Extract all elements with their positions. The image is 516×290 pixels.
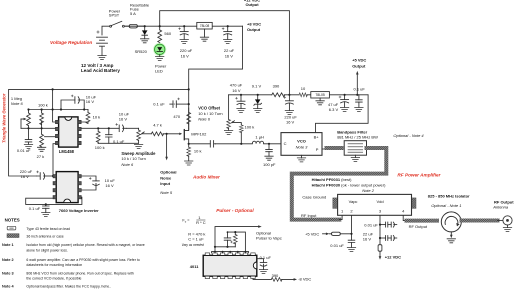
antenna connector J1 [498,216,513,228]
svg-text:Vapc: Vapc [349,199,358,204]
junction dots PA [350,224,381,240]
coax: PA to isolator [407,219,438,223]
capacitor C7 0.1uF bypass on +8 drop [170,98,189,108]
inductor L1 1uH [252,141,263,143]
svg-text:Vary as needed: Vary as needed [182,243,204,247]
ground under 220uF [180,39,188,43]
regulator U4 78L05 [311,92,330,101]
svg-text:Lead Acid Battery: Lead Acid Battery [81,68,120,73]
LED D2 Power (green) [153,43,166,57]
svg-text:16 V: 16 V [181,53,190,58]
wire: +12 VDC entry arrow [379,251,381,256]
coax: shield path from BPF around enclosure to PA input [292,148,387,220]
ground under SR520 [141,39,149,43]
resistor R10 10k source [187,144,191,161]
capacitor C1 220uF 16V [179,26,189,39]
svg-text:16 V: 16 V [86,99,95,104]
svg-text:Optional - Note 1: Optional - Note 1 [431,203,461,208]
wire: -8 output loop around 7660 [26,197,82,204]
ground under 22uF [224,39,232,43]
resistor R15 470k timing [233,232,237,247]
svg-text:100 k: 100 k [95,145,105,150]
svg-text:alone for slight power loss.: alone for slight power loss. [26,248,67,252]
resistor R8 4.7k [151,132,163,136]
svg-text:0.1 uF: 0.1 uF [153,102,165,107]
capacitor C13 470uF 16V [236,95,246,109]
svg-text:+5 VDC: +5 VDC [305,231,319,236]
op-amp U1 LM1458 DIP-8 [55,117,81,147]
svg-text:SPST: SPST [109,13,120,18]
wire: node A top bias rail above LM1458 [29,109,89,111]
ground under source resistor [185,161,193,165]
svg-text:16 V: 16 V [119,116,128,121]
svg-text:Note 3: Note 3 [2,271,14,275]
svg-text:6.3 V: 6.3 V [329,107,339,112]
svg-text:78L08: 78L08 [200,24,210,28]
svg-text:Note 6: Note 6 [11,101,24,106]
transistor Q1 MPF102 JFET [179,129,188,144]
svg-text:Type 43 ferrite bead on lead: Type 43 ferrite bead on lead [26,227,70,231]
svg-text:Optional: Optional [160,170,176,175]
capacitor C14 220uF 16V [284,95,294,111]
wire: gate node with noise input junction [163,133,181,135]
svg-text:Optional bandpass filter. Mak: Optional bandpass filter. Makes the FCC … [26,284,111,288]
svg-text:881 MHz / 25 MHz BW: 881 MHz / 25 MHz BW [337,134,378,139]
wire: coax center to pin 1 [339,215,342,219]
ground under zener [254,109,262,113]
wire: pin 4 RF out [403,215,406,220]
svg-text:390: 390 [273,83,280,88]
svg-text:0.1 uF: 0.1 uF [354,87,366,92]
svg-text:10 k: 10 k [93,115,101,120]
legend: ferrite bead symbol [7,226,16,230]
wire: pin 2 Vapc down [351,215,353,233]
svg-text:Pulser to Vapc: Pulser to Vapc [256,236,282,241]
svg-text:Voltage Regulation: Voltage Regulation [50,40,92,45]
svg-text:Pulser - Optional: Pulser - Optional [216,208,254,213]
resistor R3 100k [40,110,44,129]
svg-text:the correct VCO module, if pos: the correct VCO module, if possible [26,277,81,281]
svg-text:220 uF: 220 uF [20,169,33,174]
junction dots triangle generator [27,88,189,177]
svg-text:RF Output: RF Output [409,224,428,229]
svg-text:Note 2: Note 2 [2,258,14,262]
ground under antenna connector [503,228,511,232]
capacitor C3 0.01uF [25,128,32,144]
resistor R1 560 [158,26,162,44]
capacitor C20 1uF timing [224,232,232,247]
wire: pot bottom / divider node to pin 2 [21,127,56,129]
gate IC U8 4011 DIP-14 [203,253,257,279]
svg-text:100 k: 100 k [245,125,255,130]
ground under 100pF [265,156,273,160]
svg-text:Vdd: Vdd [377,199,384,204]
svg-text:Note 5: Note 5 [160,190,173,195]
potentiometer R11 VCO Offset 10k 10 turn [227,95,242,131]
capacitor C9 10uF 16V pump [81,176,99,190]
diode D1 SR520 [142,26,148,39]
svg-text:datasheets for mounting inform: datasheets for mounting information [26,263,82,267]
svg-text:16 V: 16 V [363,236,372,241]
ground under C17 [347,247,355,251]
ground under C21 [259,270,267,274]
resistor R12 100k [239,125,243,144]
wire: +12 VDC tap going up and right then down to 390/220uF junction [160,11,290,95]
svg-text:100 pF: 100 pF [263,162,276,167]
battery B1 12V lead acid [97,31,108,56]
resistor R14 10 [299,93,307,97]
svg-text:825 - 850 MHz Isolator: 825 - 850 MHz Isolator [428,193,470,198]
capacitor C6 10uF 16V coupling [116,123,127,131]
svg-text:100 k: 100 k [38,102,48,107]
svg-text:0.1 uF: 0.1 uF [113,139,125,144]
wire: VCO P output stub [322,148,327,150]
svg-text:Isolator from old (high power): Isolator from old (high power) cellular … [26,243,144,247]
svg-text:0.01 uF: 0.01 uF [364,222,378,227]
svg-text:36 inch antenna or case: 36 inch antenna or case [26,234,63,238]
svg-text:10 k / 10 Turn: 10 k / 10 Turn [121,156,145,161]
svg-text:560: 560 [164,31,171,36]
svg-text:10: 10 [301,86,306,91]
wire: 9V zener reference rail [229,94,369,96]
svg-text:10 k / 10 Turn: 10 k / 10 Turn [198,111,222,116]
svg-text:0.01 uF: 0.01 uF [17,148,31,153]
svg-text:+5 VDC: +5 VDC [352,58,366,63]
svg-text:NOTES: NOTES [5,218,20,223]
coax: isolator to antenna jack [462,219,498,223]
svg-text:78L05: 78L05 [315,93,325,97]
wire: optional noise input drop with arrow [166,134,168,157]
capacitor C2 22uF 16V [222,26,232,39]
capacitor C5 0.1uF [106,128,113,143]
ground under bandpass filter [351,158,359,162]
resistor R16 390 [271,278,282,282]
wire: audio output node to VCO [189,143,281,145]
resistor R6 100k to gnd [96,128,100,143]
svg-text:Note 6: Note 6 [121,162,134,167]
wire: RC timing loop [215,232,245,252]
capacitor C21 0.1uF 4011 bypass [257,259,267,270]
svg-text:VCO: VCO [297,139,306,144]
ground under 470uF [237,109,245,113]
svg-text:4.7 k: 4.7 k [153,123,162,128]
junction dots on 5V rail [240,94,359,145]
svg-text:C = 1 uF: C = 1 uF [188,236,204,241]
svg-text:4011: 4011 [190,264,199,269]
ground under 78L08 [200,37,208,41]
ground under 47uF [340,107,348,111]
svg-text:0.01 uF: 0.01 uF [330,243,344,248]
svg-text:RF Power Amplifier: RF Power Amplifier [397,173,441,178]
svg-text:B+: B+ [314,135,320,140]
regulator U2 78L08 [197,22,212,37]
charge-pump IC U3 7660 voltage inverter DIP-8 [53,172,81,203]
junction dots pulser [214,231,246,253]
ground under battery [98,56,106,60]
svg-text:Noise: Noise [160,175,172,180]
capacitor C16 0.1uF [356,95,363,108]
wire: vertical from +8 wire to node A and to pin1 [53,89,56,122]
junction dot -8 loop [45,203,47,205]
ground under 220uF C14 [285,111,293,115]
ground under 0.1uF [42,213,50,217]
wire: output node B from pin to sweep pot [81,127,138,129]
svg-text:5 A: 5 A [130,11,136,16]
svg-text:LED: LED [155,68,163,73]
svg-text:0.1 uF: 0.1 uF [260,255,272,260]
ground under sweep pot [134,144,142,148]
coax: VCO to bandpass filter [327,146,342,150]
ground under isolator [447,239,455,243]
ferrite bead FB2 [378,245,382,252]
wire: bottom node to pot ground [98,142,138,144]
potentiometer R7 Sweep Amplitude 10k 10 turn [137,128,152,143]
svg-text:1 µH: 1 µH [255,135,264,140]
svg-text:Input: Input [160,181,170,186]
ground under 0.01uF [24,144,32,148]
zener diode D3 9.1V [254,95,262,109]
svg-text:Output: Output [245,2,259,7]
svg-text:0.1 uF: 0.1 uF [29,206,41,211]
svg-text:Note 3: Note 3 [296,144,309,149]
svg-text:SR520: SR520 [135,49,148,54]
ferrite bead FB1 [332,232,341,235]
wire: +8 feed across top of generator and down left side to 7660 [9,89,189,176]
svg-text:Optional - Note 4: Optional - Note 4 [393,133,424,138]
capacitor C18 0.01uF feedthrough [380,222,397,227]
resistor R4 27k [40,128,44,147]
wire: +5 to VCO B+ [316,95,369,133]
resistor R5 10k feedback [81,110,90,124]
capacitor C15 47uF 6.3V [339,95,349,108]
svg-text:Output: Output [352,63,366,68]
svg-text:16 V: 16 V [232,88,241,93]
capacitor C17 0.01uF [348,234,355,248]
svg-text:Triangle Wave Generator: Triangle Wave Generator [2,93,7,143]
isolator U7 825-850MHz [441,212,461,238]
svg-text:10 k: 10 k [194,149,202,154]
wire: +5 VDC output arrow up [356,75,358,95]
svg-text:MPF102: MPF102 [191,132,207,137]
capacitor C4 10uF 16V integrator [61,95,84,110]
svg-text:+12 VDC: +12 VDC [385,254,401,259]
junction dots on main rail [144,25,229,27]
svg-text:6 watt power amplifier. Can u: 6 watt power amplifier. Can use a PF0030… [26,258,139,262]
svg-text:806 MHz VCO from old cellular: 806 MHz VCO from old cellular phone. Run… [26,271,133,275]
svg-text:16 V: 16 V [225,53,234,58]
potentiometer R2 1 Meg [21,110,30,129]
RF power amp module U6 PF0031 [333,194,416,215]
svg-text:P: P [316,147,319,152]
resistor R9 470 drain load [187,108,191,129]
wire: pin 4 down to -8 rail [53,144,56,176]
wire: pin 3 stub [45,136,56,138]
svg-text:Hitachi PF0031 (best): Hitachi PF0031 (best) [312,177,352,182]
svg-text:7660 Voltage Inverter: 7660 Voltage Inverter [59,208,99,213]
ground under 27k [37,147,45,151]
resistor R13 390 [272,93,285,97]
svg-text:16 V: 16 V [286,120,295,125]
svg-text:Hitachi PF0030 (ok - lower out: Hitachi PF0030 (ok - lower output power) [312,182,386,187]
svg-text:RF Input: RF Input [301,213,317,218]
VCO module U5 [281,133,322,158]
ground under C16 [355,107,363,111]
svg-text:Case Ground: Case Ground [302,194,326,199]
svg-text:Note 1: Note 1 [2,243,14,247]
capacitor C12 100pF [266,144,273,156]
ground under LED [156,57,164,61]
wire: pin 3 Vdd down [379,215,381,244]
svg-text:+8 VDC: +8 VDC [247,22,261,27]
svg-text:Note 2: Note 2 [362,188,375,193]
wire: +8VDC feed down and left to triangle generator rail [189,26,243,129]
svg-text:16 V: 16 V [105,183,114,188]
ground under VCO offset pot [224,130,232,134]
svg-text:470: 470 [173,114,180,119]
svg-text:VCO Offset: VCO Offset [198,105,220,110]
wire: +5 feed with arrow [323,233,326,235]
ground under VCO [297,158,305,162]
wire: main +12 rail from battery to +8VDC corner [102,26,243,35]
wire: top pin bus [212,252,249,253]
svg-text:9.1 V: 9.1 V [252,83,262,88]
capacitor C8 220uF 16V on -8 rail [37,171,56,179]
svg-text:Output: Output [247,27,261,32]
svg-text:R * C: R * C [196,220,206,225]
capacitor C19 22uF 16V feedthrough [380,236,397,241]
capacitor C11 0.1uF coupling [210,141,215,148]
wire: pulser output to Vapc arrow [215,227,258,252]
svg-text:Antenna: Antenna [492,205,509,210]
fuse F1 resettable 5A [126,25,145,28]
svg-text:C: C [284,141,287,146]
svg-text:-8 VDC: -8 VDC [298,277,311,282]
svg-text:Note 6: Note 6 [198,116,211,121]
fraction bar of formula [196,219,205,221]
bandpass filter FL1 [344,141,366,158]
svg-text:Audio Mixer: Audio Mixer [192,175,221,180]
capacitor C10 0.1uF on -8 [43,204,50,212]
svg-text:Note 4: Note 4 [2,284,14,288]
ground under 78L05 [316,101,324,105]
svg-text:390: 390 [272,273,279,278]
wire: -8 VDC feed with 390 resistor [253,278,294,281]
svg-text:16 V: 16 V [21,174,30,179]
svg-text:27 k: 27 k [37,154,45,159]
svg-text:LM1458: LM1458 [59,149,75,154]
legend: coil symbol [7,234,19,238]
switch SW1 Power SPST [110,21,125,27]
